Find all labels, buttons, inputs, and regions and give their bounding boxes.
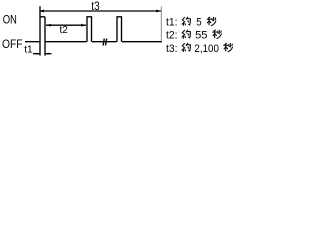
svg-text:OFF: OFF — [2, 38, 23, 51]
arrowhead t3 right — [156, 10, 161, 13]
svg-text:2,100: 2,100 — [194, 43, 219, 55]
break mark on baseline — [103, 39, 107, 46]
svg-text:t1:: t1: — [166, 17, 178, 29]
wire baseline OFF segment 4 — [122, 41, 162, 43]
svg-text:ON: ON — [3, 14, 17, 27]
svg-text:t2: t2 — [60, 24, 69, 36]
pulse 3 — [117, 17, 122, 42]
pulse 1 left edge with t3 limit above and t1 extension below — [39, 6, 41, 55]
svg-text:t3:: t3: — [166, 43, 178, 55]
svg-text:t3: t3 — [91, 1, 99, 13]
arrowhead t1 right (points left) — [45, 53, 49, 55]
arrowhead t1 left (points right) — [36, 53, 40, 55]
wire baseline OFF segment 1 — [25, 41, 40, 43]
pulse 2 — [87, 17, 92, 42]
dimension leader t1 left — [33, 53, 40, 55]
pulse 1 right edge with t1 extension below — [44, 17, 46, 56]
arrowhead t2 right — [81, 24, 86, 27]
wire baseline OFF segment 2 — [46, 41, 87, 43]
dimension leader t1 right — [46, 53, 52, 55]
t3 right limit line — [160, 7, 162, 42]
arrowhead t3 left — [39, 10, 44, 13]
pulse 1 top — [40, 16, 45, 18]
wire baseline OFF segment 3 — [92, 41, 117, 43]
dimension line t3 — [40, 10, 161, 12]
arrowhead t2 left — [46, 24, 51, 27]
dimension line t2 — [46, 24, 86, 26]
svg-text:t1: t1 — [24, 43, 33, 55]
svg-text:5: 5 — [196, 17, 201, 29]
svg-text:55: 55 — [195, 30, 207, 42]
svg-text:t2:: t2: — [166, 30, 178, 42]
